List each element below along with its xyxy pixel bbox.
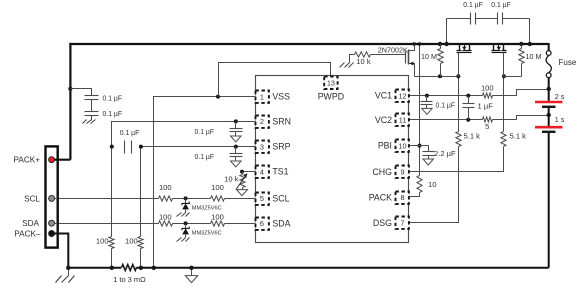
terminal SCL [49, 195, 55, 201]
zener D2 MM3Z5V6C (SDA) [177, 224, 190, 242]
wire 100ohm right to rail [140, 249, 142, 268]
label D1 part [192, 205, 222, 211]
svg-text:PBI: PBI [378, 141, 392, 151]
wire SRN branch vertical [111, 147, 113, 237]
pin 13 name PWPD [318, 92, 344, 102]
wire Q2 gate drop [458, 57, 460, 77]
svg-text:12: 12 [398, 91, 406, 100]
wire C4 stub [235, 122, 237, 135]
connector J1 body [46, 146, 58, 247]
node battery top [547, 87, 551, 91]
label R9 value [421, 52, 437, 61]
fuse F1 [546, 51, 551, 78]
wire 10k to ground corner [350, 55, 355, 63]
pin 3 name SRP [272, 142, 290, 152]
wire SCL from connector [55, 198, 58, 200]
pin 10 number [398, 141, 406, 150]
wire PACK+ to PBI vertical [419, 45, 421, 176]
node 10M left bottom [438, 74, 442, 78]
svg-text:0.1 µF: 0.1 µF [491, 0, 511, 9]
svg-text:TS1: TS1 [272, 167, 288, 177]
capacitor C8 0.1uF (VC1) [421, 96, 433, 108]
label C4 value [195, 127, 215, 136]
pin 9 box [396, 166, 409, 178]
svg-text:SCL: SCL [272, 194, 289, 204]
svg-text:PWPD: PWPD [318, 92, 344, 102]
capacitor C3 0.1uF (series filter) [125, 141, 132, 154]
svg-text:SCL: SCL [24, 194, 40, 203]
resistor R5 100 (SCL out) [211, 196, 225, 201]
label C8 value [436, 100, 456, 109]
wire VSS pin1 to left drop [154, 97, 256, 268]
wire PACK+ rail (top) [69, 43, 548, 45]
svg-text:13: 13 [327, 79, 335, 88]
svg-text:MM3Z5V6C: MM3Z5V6C [192, 205, 222, 211]
wire FET2 gate bias [504, 76, 522, 78]
wire CHG row [410, 147, 504, 172]
svg-text:6: 6 [260, 219, 264, 228]
wire VC1 after 100ohm [493, 90, 549, 96]
wire SDA from connector [55, 223, 58, 225]
ground bottom rail [185, 268, 198, 283]
svg-text:VC2: VC2 [375, 115, 392, 125]
pin 7 number [400, 218, 404, 227]
pin 1 name VSS [272, 92, 290, 102]
wire Q1 source [410, 64, 415, 77]
transistor Q2 DSG FET [457, 45, 472, 58]
label C7 value [491, 0, 511, 9]
svg-text:100: 100 [125, 236, 138, 245]
svg-text:SDA: SDA [272, 219, 290, 229]
pin 9 number [400, 168, 404, 177]
label R15 value [428, 180, 436, 189]
label C9 value [478, 101, 494, 110]
IC U1 bq gauge body [256, 76, 409, 243]
node battery middle [547, 113, 551, 117]
node VC2 1uF [466, 118, 470, 122]
wire Q1 drain [410, 45, 415, 51]
node VC1 bypass [425, 94, 429, 98]
svg-text:CHG: CHG [372, 167, 392, 177]
pin 11 box [396, 114, 409, 126]
resistor R2 100 (SRP branch) [138, 237, 143, 249]
capacitor C2 0.1uF [85, 112, 99, 116]
svg-text:7: 7 [400, 218, 404, 227]
ground C4 [231, 135, 242, 143]
wire between cells [548, 107, 550, 126]
pin 5 name SCL [272, 194, 289, 204]
wire RT1 top [242, 172, 244, 175]
pin 6 box [256, 218, 269, 230]
node bottom rail ground tap [189, 266, 193, 270]
resistor R4 100 (SCL in) [159, 196, 173, 201]
pin 4 box [256, 166, 269, 178]
pin 9 name CHG [372, 167, 392, 177]
wire SCL row [58, 198, 159, 200]
node PACK- corner [66, 266, 70, 270]
wire battery column top (fuse to rail) [548, 43, 550, 51]
resistor R8 10k (Q1 gate) [355, 52, 371, 57]
node 10M right top [519, 42, 523, 46]
svg-text:9: 9 [400, 168, 404, 177]
capacitor C7 0.1uF [498, 13, 503, 25]
svg-text:100: 100 [481, 84, 494, 93]
svg-text:10: 10 [428, 180, 436, 189]
node CHG gate node [502, 74, 506, 78]
svg-text:5.1 k: 5.1 k [510, 131, 527, 140]
svg-text:0.1 µF: 0.1 µF [463, 0, 483, 9]
wire VC2 row [410, 119, 483, 121]
wire 10M left stubs [440, 45, 442, 77]
node VSS rail tap [152, 266, 156, 270]
svg-text:Fuse: Fuse [559, 58, 577, 67]
label R13 value [464, 131, 481, 140]
pin 11 number [399, 116, 407, 125]
svg-text:PACK–: PACK– [14, 230, 41, 239]
wire VC2 after 5ohm [493, 116, 549, 120]
wire fuse to cell stack [548, 78, 550, 102]
wire PBI row [410, 145, 429, 147]
wire between stacked caps [91, 100, 93, 112]
resistor R12 5 (VC2) [483, 117, 493, 122]
battery cell BT2 1s [535, 127, 563, 132]
svg-text:5: 5 [260, 194, 264, 203]
capacitor C10 2.2uF (PBI) [423, 146, 435, 158]
label R12 value [485, 122, 489, 131]
terminal SDA [49, 220, 55, 226]
zener D1 MM3Z5V6C (SCL) [177, 199, 190, 217]
svg-text:1 s: 1 s [555, 115, 565, 124]
ground C10 [423, 158, 434, 166]
node VC1 1uF [466, 94, 470, 98]
label C6 value [463, 0, 483, 9]
wire SRN pin2 row [112, 122, 256, 147]
label C5 value [195, 152, 215, 161]
svg-text:DSG: DSG [373, 218, 392, 228]
wire VC1 row [410, 95, 483, 97]
resistor R1 100 (SRN branch) [109, 237, 114, 249]
label R10 value [526, 52, 542, 61]
label PACK+ [14, 156, 41, 165]
pin 10 box [396, 140, 409, 152]
label R8 value [356, 57, 371, 66]
label R4 value [159, 183, 172, 192]
wire PACK+ terminal stub [54, 159, 70, 161]
pin 5 box [256, 193, 269, 205]
label BT1 2s [555, 92, 565, 101]
pin 5 number [260, 194, 264, 203]
pin 8 name PACK [369, 192, 392, 202]
battery cell BT1 2s [535, 102, 563, 107]
pin 2 name SRN [272, 117, 291, 127]
wire FET1 gate bias [415, 76, 459, 78]
pin 13 box [324, 77, 337, 89]
svg-text:2.2 µF: 2.2 µF [434, 149, 456, 158]
ground RT1 [237, 188, 248, 196]
transistor Q3 CHG FET [492, 45, 507, 58]
pin 2 number [260, 117, 264, 126]
resistor R11 100 (VC1) [483, 93, 493, 98]
pin 3 box [256, 141, 269, 153]
wire snubber left drop [446, 19, 448, 45]
pin 8 box [396, 192, 409, 204]
wire SCL mid segment [173, 198, 211, 200]
node snubber right [528, 42, 532, 46]
wire SRP branch vertical [140, 147, 142, 237]
node DSG gate node [456, 74, 460, 78]
label Q1 part [378, 46, 408, 55]
svg-text:10: 10 [398, 141, 406, 150]
wire SDA row [58, 223, 159, 225]
pin 1 number [260, 92, 264, 101]
wire 1uF cap link lower [468, 108, 470, 120]
label C1 value [103, 93, 123, 102]
transistor Q1 2N7002K [406, 50, 414, 66]
svg-text:4: 4 [260, 167, 264, 176]
wire Q1 gate feed [371, 54, 406, 56]
node snubber left [444, 42, 448, 46]
node SRN/SRP filter cap right [139, 145, 143, 149]
pin 12 box [396, 90, 409, 102]
pin 7 box [396, 217, 409, 229]
svg-text:100: 100 [96, 236, 109, 245]
wire cell stack to bottom rail [548, 131, 550, 268]
svg-text:PACK: PACK [369, 192, 392, 202]
wire TS1 pin4 [243, 171, 256, 173]
wire PACK- drop from connector [58, 234, 69, 268]
resistor R15 10 (PACK) [417, 176, 422, 193]
wire 10ohm to PACK pin [410, 193, 420, 197]
resistor R7 100 (SDA out) [211, 221, 225, 226]
label R3 value [113, 275, 146, 284]
pin 4 name TS1 [272, 167, 288, 177]
label F1 Fuse [559, 58, 577, 67]
svg-text:MM3Z5V6C: MM3Z5V6C [192, 230, 222, 236]
resistor R6 100 (SDA in) [159, 221, 173, 226]
capacitor C4 0.1uF (SRN) [230, 129, 243, 132]
svg-text:VSS: VSS [272, 92, 290, 102]
node VSS junction [216, 95, 220, 99]
svg-text:10 M: 10 M [526, 52, 542, 61]
svg-text:1 µF: 1 µF [478, 101, 494, 110]
label C3 value [120, 128, 140, 137]
svg-text:2 s: 2 s [555, 92, 565, 101]
resistor R10 10M [519, 49, 524, 64]
svg-text:5.1 k: 5.1 k [464, 131, 481, 140]
pin 10 name PBI [378, 141, 392, 151]
node SDA zener junction [184, 221, 188, 225]
svg-text:SDA: SDA [22, 219, 39, 228]
ground C8 [422, 108, 433, 115]
node SCL zener junction [184, 196, 188, 200]
label R2 value [125, 236, 138, 245]
wire rail to cap stack [71, 89, 92, 96]
label C2 value [103, 109, 123, 118]
ground C5 [231, 160, 242, 168]
svg-text:5: 5 [485, 122, 489, 131]
wire SDA to pin6 [225, 223, 256, 225]
label R5 value [211, 183, 224, 192]
wire cap stack to ground [91, 116, 93, 121]
svg-text:1: 1 [260, 92, 264, 101]
node sense right [139, 266, 143, 270]
svg-text:10 M: 10 M [421, 52, 437, 61]
node PBI junction [418, 144, 422, 148]
node SRN/SRP filter cap left [110, 145, 114, 149]
pin 1 box [256, 91, 269, 103]
label BT2 1s [555, 115, 565, 124]
svg-text:0.1 µF: 0.1 µF [103, 93, 123, 102]
wire 1uF cap link [468, 96, 470, 104]
node TS1 corner [240, 170, 244, 174]
svg-text:SRP: SRP [272, 142, 290, 152]
resistor R3 sense 1-3mOhm [121, 265, 136, 271]
label D2 part [192, 230, 222, 236]
svg-text:0.1 µF: 0.1 µF [436, 100, 456, 109]
node rail tap for PACK resistor [418, 42, 422, 46]
capacitor C1 0.1uF [85, 96, 99, 100]
pin 2 box [256, 116, 269, 128]
svg-text:10 k: 10 k [224, 175, 239, 184]
capacitor C9 1uF [463, 104, 475, 108]
wire snubber right drop [529, 19, 531, 45]
svg-text:100: 100 [159, 183, 172, 192]
label PACK- [14, 230, 41, 239]
terminal PACK- [49, 231, 55, 237]
ground PACK- chassis [56, 269, 75, 283]
label R7 value [211, 213, 224, 222]
wire SRN bypass junction [234, 119, 238, 123]
label R11 value [481, 84, 494, 93]
pin 12 name VC1 [375, 91, 392, 101]
svg-text:SRN: SRN [272, 117, 291, 127]
svg-text:2: 2 [260, 117, 264, 126]
svg-text:0.1 µF: 0.1 µF [195, 152, 215, 161]
svg-text:11: 11 [399, 116, 407, 125]
wire 10M right stubs [521, 45, 523, 77]
label R14 value [510, 131, 527, 140]
svg-text:10 k: 10 k [356, 57, 371, 66]
svg-text:100: 100 [211, 183, 224, 192]
node PACK+ rail tap [68, 87, 72, 91]
svg-text:0.1 µF: 0.1 µF [195, 127, 215, 136]
wire C5 stub [235, 147, 237, 160]
pin 7 name DSG [373, 218, 392, 228]
capacitor C6 0.1uF [471, 13, 476, 25]
label C10 value [434, 149, 456, 158]
wire FET snubber caps top [447, 18, 530, 20]
node Q1 drain rail tap [412, 42, 416, 46]
wire PACK- from connector [55, 233, 58, 235]
label R6 value [159, 213, 172, 222]
svg-text:2N7002K: 2N7002K [378, 46, 408, 55]
pin 4 number [260, 167, 264, 176]
wire DSG gate link upper [458, 77, 460, 132]
wire PACK- bottom rail [68, 267, 548, 269]
svg-text:8: 8 [400, 193, 404, 202]
svg-text:3: 3 [260, 142, 264, 151]
capacitor C5 0.1uF (SRP) [230, 154, 243, 157]
label SCL [24, 194, 40, 203]
ground R8 [340, 63, 354, 68]
thermistor RT1 10k [236, 173, 247, 189]
svg-text:1 to 3 mΩ: 1 to 3 mΩ [113, 275, 146, 284]
label RT1 value [224, 175, 239, 184]
svg-text:100: 100 [211, 213, 224, 222]
ground cap stack [83, 116, 96, 124]
wire SRP bypass junction [234, 145, 238, 149]
wire SCL to pin5 [225, 198, 256, 200]
wire DSG row [410, 147, 459, 223]
pin 11 name VC2 [375, 115, 392, 125]
pin 13 number [327, 79, 335, 88]
wire 100ohm left to rail [111, 249, 113, 268]
wire Q3 gate drop [503, 57, 505, 77]
resistor R13 5.1k (DSG gate) [456, 132, 461, 147]
node 10M left top [438, 42, 442, 46]
svg-text:0.1 µF: 0.1 µF [103, 109, 123, 118]
svg-text:0.1 µF: 0.1 µF [120, 128, 140, 137]
wire SRP pin3 row [141, 146, 256, 148]
resistor R9 10M [438, 49, 443, 64]
pin 12 number [398, 91, 406, 100]
wire PWPD to VSS [219, 63, 331, 97]
svg-text:VC1: VC1 [375, 91, 392, 101]
svg-text:PACK+: PACK+ [14, 156, 41, 165]
terminal PACK+ [49, 157, 55, 163]
pin 8 number [400, 193, 404, 202]
pin 6 name SDA [272, 219, 290, 229]
svg-text:100: 100 [159, 213, 172, 222]
wire SDA mid segment [173, 223, 211, 225]
wire PACK+ rail (left vertical) [69, 43, 71, 160]
wire CHG gate link upper [503, 77, 505, 132]
resistor R14 5.1k (CHG gate) [501, 132, 506, 147]
label SDA [22, 219, 39, 228]
label R1 value [96, 236, 109, 245]
pin 6 number [260, 219, 264, 228]
node sense left [110, 266, 114, 270]
pin 3 number [260, 142, 264, 151]
